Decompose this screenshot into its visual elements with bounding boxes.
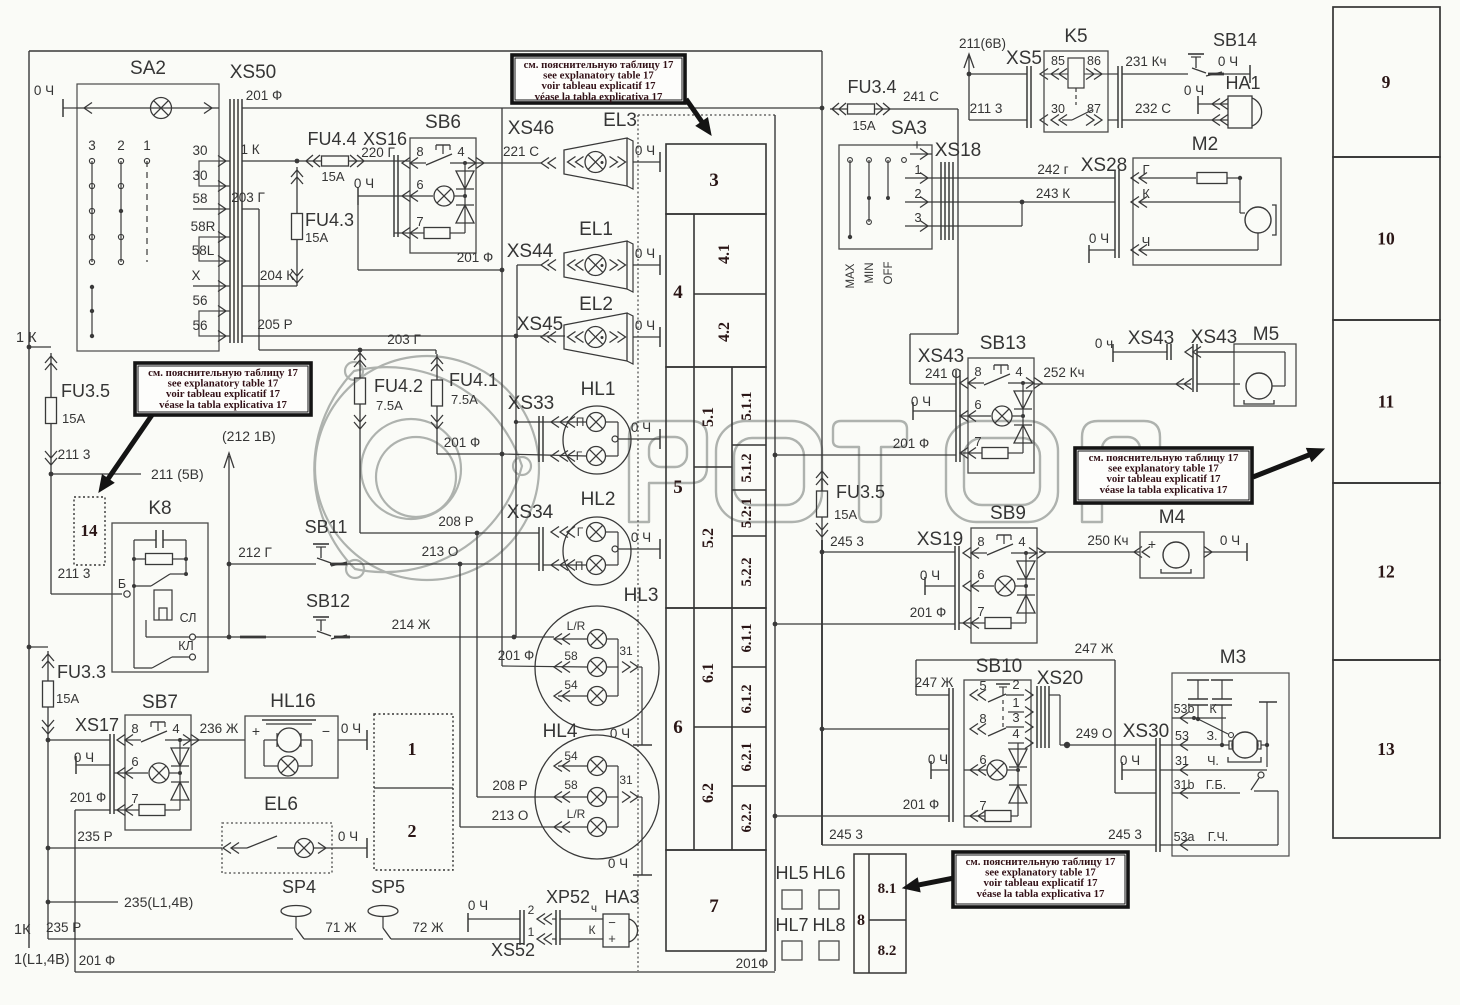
terminal 0Ч XS30 xyxy=(1120,753,1156,780)
svg-text:XS5: XS5 xyxy=(1006,48,1042,69)
svg-text:SB9: SB9 xyxy=(990,503,1026,524)
svg-text:214 Ж: 214 Ж xyxy=(392,617,431,632)
terminal 0Ч SB14 xyxy=(1218,54,1250,83)
svg-text:4: 4 xyxy=(1012,726,1019,741)
svg-text:201 Ф: 201 Ф xyxy=(903,797,940,812)
block 6 group xyxy=(666,608,766,850)
svg-text:8.1: 8.1 xyxy=(878,881,897,897)
watermark rotor logo xyxy=(314,356,539,580)
label 1K top xyxy=(16,330,37,346)
svg-text:П: П xyxy=(575,559,584,573)
wire bus 201Ф vertical xyxy=(501,108,503,666)
svg-text:7: 7 xyxy=(977,604,984,619)
svg-text:211 (5В): 211 (5В) xyxy=(151,466,204,482)
svg-text:58L: 58L xyxy=(192,243,215,258)
svg-text:3: 3 xyxy=(709,170,719,191)
svg-text:6: 6 xyxy=(131,754,138,769)
svg-text:HL5: HL5 xyxy=(775,863,808,883)
block 11 xyxy=(1333,320,1440,483)
svg-text:212 Г: 212 Г xyxy=(238,545,272,560)
svg-text:58: 58 xyxy=(192,191,207,206)
svg-text:6.1.1: 6.1.1 xyxy=(739,624,755,653)
svg-text:З.: З. xyxy=(1206,729,1217,743)
M2 motor xyxy=(1240,178,1276,250)
M2 resistor xyxy=(1197,173,1242,184)
SA3 pin 3 xyxy=(905,210,932,232)
svg-text:243 К: 243 К xyxy=(1036,186,1070,201)
svg-text:72 Ж: 72 Ж xyxy=(412,920,444,935)
terminal 0Ч at SB6 pin6 xyxy=(354,176,410,205)
K8 capacitor xyxy=(134,530,186,559)
svg-text:201 Ф: 201 Ф xyxy=(893,436,930,451)
wire 211 3 to XS5 xyxy=(969,101,1027,120)
switch unit SB7 xyxy=(117,715,199,830)
terminal 0Ч HL4 xyxy=(608,856,652,875)
svg-text:FU3.4: FU3.4 xyxy=(847,77,896,97)
svg-text:247 Ж: 247 Ж xyxy=(915,675,954,690)
svg-text:1: 1 xyxy=(528,925,535,939)
SA2 pin 56 lower xyxy=(192,318,230,342)
wire 243К xyxy=(932,186,1240,208)
svg-text:XS46: XS46 xyxy=(508,118,554,139)
svg-text:30: 30 xyxy=(192,168,207,183)
svg-text:К: К xyxy=(1209,702,1217,716)
wire 213О down to HL4 xyxy=(459,564,461,827)
wire 204К from SA2 pin X to FU4.3 xyxy=(242,268,297,286)
svg-text:7: 7 xyxy=(416,214,423,229)
wire Ч M2 xyxy=(1131,234,1258,256)
svg-text:87: 87 xyxy=(1087,102,1101,116)
svg-text:236 Ж: 236 Ж xyxy=(200,721,239,736)
wire 242г xyxy=(932,162,1196,184)
svg-text:7: 7 xyxy=(974,434,981,449)
svg-text:L/R: L/R xyxy=(567,619,586,633)
connector XS52 xyxy=(491,903,535,960)
svg-text:XP52: XP52 xyxy=(546,887,590,907)
svg-text:6: 6 xyxy=(416,177,423,192)
svg-text:5.1: 5.1 xyxy=(700,407,717,427)
central column outer box xyxy=(638,115,775,971)
terminal 0Ч SB9 xyxy=(920,568,955,595)
SA2 switch tracks 3 2 1 xyxy=(88,138,151,338)
svg-text:1 К: 1 К xyxy=(240,142,259,157)
svg-text:7: 7 xyxy=(131,791,138,806)
svg-text:1: 1 xyxy=(408,739,417,759)
connector XS17 xyxy=(75,715,119,814)
svg-text:FU4.4: FU4.4 xyxy=(307,129,356,149)
block 14 xyxy=(74,497,105,565)
switch unit SB9 xyxy=(963,528,1045,643)
svg-text:1: 1 xyxy=(1012,695,1019,710)
svg-text:247 Ж: 247 Ж xyxy=(1075,641,1114,656)
svg-text:8: 8 xyxy=(977,534,984,549)
block 3 xyxy=(666,144,766,214)
svg-text:SB10: SB10 xyxy=(976,656,1022,677)
svg-text:220 Г: 220 Г xyxy=(361,145,395,160)
svg-text:X: X xyxy=(191,268,200,283)
svg-text:+: + xyxy=(1148,536,1156,552)
svg-text:14: 14 xyxy=(81,521,99,540)
wire 245 3 to XS19 xyxy=(822,534,955,552)
frame border top xyxy=(29,50,822,52)
svg-text:235(L1,4В): 235(L1,4В) xyxy=(124,894,193,910)
svg-text:211(6В): 211(6В) xyxy=(959,36,1006,51)
svg-text:6.2: 6.2 xyxy=(700,783,717,803)
svg-text:SB6: SB6 xyxy=(425,112,461,133)
svg-text:XS28: XS28 xyxy=(1081,155,1127,176)
block 4 group xyxy=(666,214,766,367)
svg-text:véase la tabla explicativa 17: véase la tabla explicativa 17 xyxy=(535,91,663,103)
svg-text:0 Ч: 0 Ч xyxy=(1184,83,1204,98)
wire 235(L1,4В) branch xyxy=(48,894,193,910)
wire 201Ф from SB7 pin7 xyxy=(70,790,125,972)
wire 205Р down to HL1 and 214Ж xyxy=(514,336,518,637)
switch unit SB13 xyxy=(960,358,1042,473)
switch SA2 box xyxy=(77,58,219,351)
lamp cluster HL2 xyxy=(543,489,660,585)
svg-text:XS43: XS43 xyxy=(918,346,964,367)
label 211(6В) xyxy=(959,36,1006,76)
M3 motor xyxy=(1198,719,1261,762)
terminal 0Ч EL6 xyxy=(338,829,367,858)
fuse FU4.3 15A xyxy=(291,161,354,286)
svg-text:HL2: HL2 xyxy=(581,489,616,510)
svg-text:5.2:1: 5.2:1 xyxy=(739,498,755,528)
svg-text:FU3.5: FU3.5 xyxy=(836,482,885,502)
terminal 0Ч HL2 xyxy=(631,530,660,559)
svg-text:86: 86 xyxy=(1087,54,1101,68)
svg-text:XS17: XS17 xyxy=(75,715,119,735)
svg-text:15A: 15A xyxy=(56,691,79,706)
connector XS28 xyxy=(1081,155,1127,258)
svg-text:HL1: HL1 xyxy=(581,379,616,400)
M3 pin 31b xyxy=(1172,778,1240,799)
wire 208Р label HL4 xyxy=(492,778,527,793)
svg-text:XS18: XS18 xyxy=(935,140,981,161)
svg-text:235 Р: 235 Р xyxy=(46,920,81,935)
wire 208Р down to HL4 xyxy=(476,533,478,797)
svg-text:7.5A: 7.5A xyxy=(376,398,403,413)
svg-text:56: 56 xyxy=(192,318,207,333)
svg-text:0 ч: 0 ч xyxy=(1095,336,1113,351)
K8 pin КЛ lower contact xyxy=(134,594,196,668)
headlight EL3 xyxy=(564,110,637,189)
block 1 2 xyxy=(374,714,453,870)
K5 contact 30-87 xyxy=(1051,110,1102,126)
svg-text:201 Ф: 201 Ф xyxy=(457,250,494,265)
svg-text:54: 54 xyxy=(564,749,578,763)
wire net from FU3.3 down xyxy=(46,737,51,939)
terminal 0Ч HA1 xyxy=(1184,83,1228,114)
svg-text:10: 10 xyxy=(1377,229,1395,249)
svg-text:15A: 15A xyxy=(305,230,328,245)
M3 pin 53b xyxy=(1172,702,1226,724)
svg-text:0 Ч: 0 Ч xyxy=(1120,753,1140,768)
svg-text:205 Р: 205 Р xyxy=(257,317,292,332)
svg-text:8: 8 xyxy=(974,364,981,379)
buzzer HA3 xyxy=(603,887,640,947)
motor unit M5 xyxy=(1197,324,1296,406)
fuse FU3.5 15A main bus xyxy=(816,468,885,845)
lamp cluster HL4 xyxy=(460,721,659,875)
signal lamp unit HL16 xyxy=(245,691,367,778)
terminal 0Ч HL16 xyxy=(341,721,367,750)
svg-text:K5: K5 xyxy=(1064,26,1087,47)
indicator HL6 xyxy=(812,863,845,909)
svg-text:M2: M2 xyxy=(1192,134,1218,155)
motor unit M2 box xyxy=(1133,134,1281,265)
wire 201Ф to SB13 pin7 xyxy=(773,436,968,457)
SA2 pin 30 lower xyxy=(192,168,230,192)
svg-text:245 3: 245 3 xyxy=(829,827,863,842)
svg-text:6: 6 xyxy=(974,397,981,412)
svg-text:FU4.3: FU4.3 xyxy=(305,210,354,230)
M3 switch xyxy=(1251,772,1278,845)
wire 212Г label xyxy=(238,545,272,560)
wire 201Ф to SB9 pin7 xyxy=(773,605,971,626)
svg-text:15A: 15A xyxy=(834,507,857,522)
svg-text:231 Кч: 231 Кч xyxy=(1125,54,1166,69)
svg-text:232 С: 232 С xyxy=(1135,101,1171,116)
svg-text:SA2: SA2 xyxy=(130,58,166,79)
svg-text:XS30: XS30 xyxy=(1123,721,1169,742)
K8 contact xyxy=(118,559,188,594)
svg-text:1(L1,4В): 1(L1,4В) xyxy=(14,952,70,968)
svg-text:53b: 53b xyxy=(1174,702,1195,716)
connector XS20 xyxy=(949,668,1083,822)
indicator HL5 xyxy=(775,863,808,909)
svg-text:4: 4 xyxy=(457,144,464,159)
indicator HL8 xyxy=(812,915,845,960)
terminal 0Ч M2 xyxy=(1089,231,1115,263)
svg-text:4: 4 xyxy=(1015,364,1022,379)
terminal 0Ч HL3 xyxy=(610,726,652,745)
wire 245 3 bottom xyxy=(822,827,1156,845)
svg-text:4: 4 xyxy=(673,282,683,303)
svg-text:5.1.1: 5.1.1 xyxy=(739,392,755,421)
svg-text:201 Ф: 201 Ф xyxy=(444,435,481,450)
lamp inside SA2 xyxy=(77,98,219,119)
svg-text:1К: 1К xyxy=(14,922,31,938)
block 8 xyxy=(854,854,906,973)
svg-text:213 О: 213 О xyxy=(422,544,459,559)
svg-text:58: 58 xyxy=(564,778,578,792)
wire 236Ж SB7 to HL16 xyxy=(191,721,245,740)
svg-text:15A: 15A xyxy=(852,118,875,133)
terminal 0Ч XS52 xyxy=(468,898,520,932)
terminal 0Ч EL3 xyxy=(633,143,660,172)
svg-text:8: 8 xyxy=(857,912,865,929)
svg-text:Г.Ч.: Г.Ч. xyxy=(1208,830,1229,844)
svg-text:0 Ч: 0 Ч xyxy=(635,143,655,158)
horn HA1 xyxy=(1225,73,1261,128)
svg-text:1: 1 xyxy=(143,138,151,153)
svg-text:(212 1В): (212 1В) xyxy=(222,428,276,444)
svg-text:250 Кч: 250 Кч xyxy=(1087,533,1128,548)
svg-text:201 Ф: 201 Ф xyxy=(79,953,116,968)
svg-text:221 С: 221 С xyxy=(503,144,539,159)
SA3 pin + xyxy=(910,137,932,160)
wire 213О after SB11 xyxy=(347,544,539,566)
wire 211(6В) to XS5 xyxy=(969,74,1027,120)
connector XS50 xyxy=(230,62,276,343)
SA3 pin 2 xyxy=(905,186,932,208)
svg-text:8.2: 8.2 xyxy=(878,943,897,959)
svg-text:véase la tabla explicativa 17: véase la tabla explicativa 17 xyxy=(977,888,1105,900)
pushbutton SB12 xyxy=(229,591,350,639)
terminal 0Ч HL1 xyxy=(631,420,660,449)
svg-text:−: − xyxy=(608,915,616,930)
terminal 0Ч M4 xyxy=(1204,533,1247,561)
SA2 pin X xyxy=(191,268,230,292)
svg-text:7.5A: 7.5A xyxy=(451,392,478,407)
connector XS43 SB13 xyxy=(910,346,964,462)
wire 235Р bottom to SP4 SP5 xyxy=(46,920,293,939)
svg-text:+: + xyxy=(608,931,616,946)
wire 203Г horizontal to fuses xyxy=(259,332,436,352)
wire 250Кч to M4 xyxy=(1039,533,1150,558)
wire 201Ф label HL3 xyxy=(498,648,535,663)
svg-text:MAX: MAX xyxy=(845,263,857,288)
svg-text:SB13: SB13 xyxy=(980,333,1026,354)
svg-text:ч: ч xyxy=(591,901,597,915)
fuse FU4.2 7.5A xyxy=(354,350,423,432)
wire 247Ж path xyxy=(916,641,1156,793)
label 1K bottom xyxy=(14,922,31,938)
svg-text:HL6: HL6 xyxy=(812,863,845,883)
K5 output bars xyxy=(1108,66,1122,128)
M3 pin 53 xyxy=(1160,729,1229,751)
pushbutton SB11 xyxy=(229,517,347,566)
svg-text:211 3: 211 3 xyxy=(58,566,91,581)
connector XS30 xyxy=(1123,721,1169,852)
SA2 pin bracket 58R-58L xyxy=(199,237,219,261)
fuse FU3.4 15A xyxy=(830,77,897,133)
terminal 0Ч EL1 xyxy=(633,246,660,275)
wire 201Ф bottom xyxy=(75,953,775,972)
svg-text:0 Ч: 0 Ч xyxy=(1218,54,1238,69)
wire SB10 pin8 from bus xyxy=(822,728,949,730)
horn button SP5 xyxy=(368,877,405,939)
svg-text:FU3.3: FU3.3 xyxy=(57,662,106,682)
svg-text:7: 7 xyxy=(709,896,719,917)
wire 221С label xyxy=(503,144,556,169)
svg-text:КЛ: КЛ xyxy=(178,639,194,653)
wire 208Р from FU4.2 xyxy=(360,432,539,535)
wire 213О label HL4 xyxy=(492,808,529,823)
svg-text:−: − xyxy=(322,723,330,739)
svg-text:3: 3 xyxy=(914,210,921,225)
SA2 pin 58L xyxy=(192,243,230,267)
svg-text:0 Ч: 0 Ч xyxy=(1089,231,1109,246)
SB10 switch contacts xyxy=(988,684,1024,743)
svg-text:15A: 15A xyxy=(321,169,344,184)
svg-text:6.1.2: 6.1.2 xyxy=(739,685,755,714)
M3 capacitor C1 xyxy=(1187,680,1209,721)
block 10 xyxy=(1333,157,1440,320)
block 12 xyxy=(1333,483,1440,660)
svg-text:6.1: 6.1 xyxy=(700,663,717,683)
svg-text:Г: Г xyxy=(577,525,584,539)
svg-text:FU4.2: FU4.2 xyxy=(374,376,423,396)
svg-text:3: 3 xyxy=(88,138,96,153)
svg-text:6: 6 xyxy=(977,567,984,582)
svg-text:EL3: EL3 xyxy=(603,110,637,131)
motor unit M3 box xyxy=(1172,647,1289,856)
svg-text:0 Ч: 0 Ч xyxy=(631,420,651,435)
svg-text:0 Ч: 0 Ч xyxy=(635,318,655,333)
block 5 group xyxy=(666,367,766,608)
motor unit M4 xyxy=(1140,507,1204,578)
svg-text:SB14: SB14 xyxy=(1213,30,1257,50)
svg-text:245 3: 245 3 xyxy=(1108,827,1142,842)
label 1(L1,4B) xyxy=(14,952,70,968)
wire 71Ж xyxy=(304,920,383,939)
svg-text:4.1: 4.1 xyxy=(716,244,733,264)
wire 232С to HA1 xyxy=(1122,101,1228,126)
svg-text:204 К: 204 К xyxy=(260,268,294,283)
svg-text:235 Р: 235 Р xyxy=(77,829,112,844)
SA2 pin bracket 30-30 xyxy=(199,161,219,186)
svg-text:6.2.1: 6.2.1 xyxy=(739,743,755,772)
svg-text:201Ф: 201Ф xyxy=(736,956,769,971)
svg-text:211 3: 211 3 xyxy=(970,101,1003,116)
block 9 xyxy=(1333,7,1440,157)
svg-text:0 Ч: 0 Ч xyxy=(1220,533,1240,548)
frame border left (net 1K) xyxy=(28,51,30,948)
svg-text:2: 2 xyxy=(1012,677,1019,692)
svg-text:1 К: 1 К xyxy=(16,330,37,346)
SA2 pin 58 xyxy=(192,191,230,215)
svg-text:0 Ч: 0 Ч xyxy=(608,856,628,871)
K8 pin СЛ xyxy=(146,611,229,640)
relay K5 box xyxy=(1044,26,1108,132)
connector XS16 xyxy=(361,129,410,237)
svg-text:FU4.1: FU4.1 xyxy=(449,370,498,390)
wire 211 3 to K8 xyxy=(51,566,130,597)
svg-text:0 Ч: 0 Ч xyxy=(341,721,361,736)
svg-text:201 Ф: 201 Ф xyxy=(70,790,107,805)
connector XS19 xyxy=(917,529,963,630)
connector XS33 xyxy=(508,393,554,462)
SB10 pins right xyxy=(1012,677,1033,749)
switch unit SB10 box xyxy=(964,656,1031,827)
SA2 pin bracket 56-56 xyxy=(199,311,219,336)
svg-text:242 г: 242 г xyxy=(1037,162,1068,177)
svg-text:0 Ч: 0 Ч xyxy=(635,246,655,261)
wire 201Ф to SB10 pin7 xyxy=(773,797,949,818)
svg-text:véase la tabla explicativa 17: véase la tabla explicativa 17 xyxy=(1100,484,1228,496)
svg-text:252 Кч: 252 Кч xyxy=(1043,365,1084,380)
svg-text:СЛ: СЛ xyxy=(180,611,197,625)
svg-text:SP4: SP4 xyxy=(282,877,316,897)
headlight EL1 xyxy=(507,219,633,336)
fuse FU4.4 15A xyxy=(304,129,366,184)
wire 1К to FU4.4 xyxy=(240,142,304,163)
wire 214Ж after SB12 xyxy=(347,617,554,639)
svg-text:+: + xyxy=(913,137,922,154)
svg-text:XS19: XS19 xyxy=(917,529,963,550)
note box 3 xyxy=(1075,448,1324,503)
SA3 MAX MIN OFF labels xyxy=(845,262,895,289)
svg-text:XS50: XS50 xyxy=(230,62,276,83)
fuse FU4.1 7.5A xyxy=(431,350,498,432)
SA2 pin 56 upper xyxy=(192,293,230,317)
svg-text:211 3: 211 3 xyxy=(58,447,91,462)
label 201Ф bottom of column xyxy=(736,956,769,971)
svg-text:Г.Б.: Г.Б. xyxy=(1206,778,1226,792)
SA3 tracks xyxy=(848,158,907,240)
